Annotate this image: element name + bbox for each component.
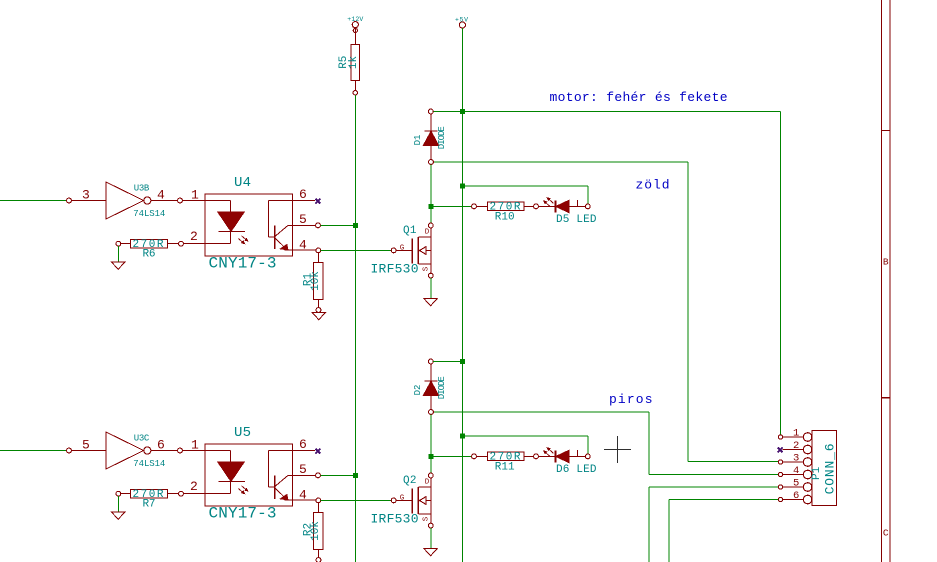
junction +5V led feed — [460, 434, 465, 439]
svg-text:G: G — [400, 245, 405, 253]
resistor R2 — [314, 503, 324, 562]
label Q1 — [403, 225, 417, 237]
pin number 5 — [82, 438, 90, 453]
label U3B — [134, 184, 150, 194]
node input pin 5 — [67, 448, 106, 453]
svg-text:C: C — [883, 528, 889, 539]
transistor Q2 — [391, 473, 433, 528]
svg-text:74LS14: 74LS14 — [133, 459, 165, 469]
svg-text:2: 2 — [190, 479, 198, 494]
pin number 2 — [793, 440, 799, 452]
pin number 4 — [793, 465, 799, 477]
resistor R5 — [351, 45, 360, 95]
value DIODE — [437, 126, 447, 149]
connector P1 — [783, 431, 837, 506]
svg-text:R11: R11 — [495, 462, 515, 474]
svg-text:D5 LED: D5 LED — [556, 214, 597, 226]
svg-text:3: 3 — [82, 188, 90, 203]
junction +12V rail — [353, 473, 358, 478]
svg-text:1: 1 — [191, 438, 199, 453]
pin number 3 — [82, 188, 90, 203]
svg-text:DIODE: DIODE — [437, 376, 447, 399]
junction +5V led feed — [460, 184, 465, 189]
svg-text:S: S — [422, 266, 430, 271]
node inverter output — [178, 198, 183, 203]
value 10k — [310, 521, 322, 541]
value IRF530 — [371, 262, 419, 277]
svg-text:U3C: U3C — [134, 434, 150, 444]
label D2 — [413, 385, 423, 396]
pin number 1 — [182, 188, 205, 203]
svg-text:motor: fehér és fekete: motor: fehér és fekete — [550, 90, 728, 105]
svg-text:1k: 1k — [348, 56, 360, 70]
resistor R10 — [472, 202, 539, 211]
wire pin6 of P1 — [669, 500, 778, 562]
svg-text:+5V: +5V — [455, 16, 468, 23]
pin name D — [425, 229, 430, 237]
label R2 — [303, 523, 315, 536]
wire pin5 of P1 — [649, 487, 778, 562]
label D5 LED — [556, 214, 597, 226]
svg-text:zöld: zöld — [636, 178, 670, 193]
wire pin5 to +12V rail — [320, 474, 355, 476]
svg-text:6: 6 — [793, 490, 799, 502]
svg-text:5: 5 — [299, 462, 307, 477]
wire D2 cathode to +5V rail — [433, 361, 462, 363]
pin 6 — [293, 187, 316, 202]
node P1 pin 1 — [778, 435, 782, 439]
svg-text:P1: P1 — [811, 466, 823, 480]
wire source to ground — [430, 278, 432, 299]
label R5 — [338, 56, 350, 69]
wire +12V rail vertical — [354, 95, 356, 562]
label D1 — [413, 135, 423, 146]
wire source to ground — [430, 528, 432, 549]
svg-text:IRF530: IRF530 — [371, 512, 419, 527]
pin 4 — [293, 238, 321, 253]
pin number 5 — [793, 477, 799, 489]
wire motor net — [433, 112, 780, 435]
svg-text:CNY17-3: CNY17-3 — [209, 505, 277, 523]
frame row letter B — [883, 257, 889, 268]
svg-text:6: 6 — [299, 437, 307, 452]
pin number 3 — [793, 452, 799, 464]
label zöld — [636, 178, 670, 193]
pin number 4 — [151, 188, 178, 203]
value 270R — [490, 451, 521, 463]
ground — [424, 549, 437, 556]
pin 2 — [179, 479, 205, 496]
diode D1 — [423, 109, 438, 164]
wire pin4 to gate — [321, 499, 391, 501]
node P1 pin 5 — [778, 485, 782, 489]
junction +12V rail — [353, 223, 358, 228]
resistor R11 — [472, 452, 539, 461]
value DIODE — [437, 376, 447, 399]
label R10 — [495, 212, 515, 224]
ground — [112, 262, 125, 269]
svg-text:6: 6 — [157, 438, 165, 453]
pin number 1 — [182, 438, 205, 453]
value CNY17-3 — [209, 255, 277, 273]
value 270R — [133, 239, 164, 251]
pin name S — [422, 516, 430, 521]
value 74LS14 — [133, 459, 165, 469]
LED D6 — [538, 448, 590, 463]
ground — [424, 299, 437, 306]
inverter U3B — [106, 182, 151, 219]
junction +5V motor — [460, 109, 465, 114]
svg-text:D: D — [425, 479, 430, 487]
value 270R — [133, 489, 164, 501]
svg-text:U4: U4 — [234, 175, 251, 191]
power +5V — [455, 16, 468, 28]
svg-text:1: 1 — [191, 188, 199, 203]
svg-text:Q2: Q2 — [403, 475, 417, 487]
wire diode to drain — [430, 414, 432, 473]
svg-text:4: 4 — [157, 188, 165, 203]
label Q2 — [403, 475, 417, 487]
frame row letter C — [883, 528, 889, 539]
wire +5V rail vertical — [461, 28, 463, 562]
svg-text:U5: U5 — [234, 425, 251, 441]
value 74LS14 — [133, 209, 165, 219]
svg-text:2: 2 — [190, 229, 198, 244]
svg-text:D2: D2 — [413, 385, 423, 396]
node inverter output — [178, 448, 183, 453]
transistor Q1 — [391, 223, 433, 278]
resistor R1 — [314, 253, 324, 313]
wire led anode feed — [462, 186, 587, 204]
svg-text:CNY17-3: CNY17-3 — [209, 255, 277, 273]
value IRF530 — [371, 512, 419, 527]
wire pin4 to gate — [321, 249, 391, 251]
svg-text:5: 5 — [299, 212, 307, 227]
svg-text:CONN_6: CONN_6 — [823, 443, 838, 494]
value 270R — [490, 201, 521, 213]
label R6 — [143, 249, 156, 261]
diode D2 — [423, 359, 438, 414]
wire input — [0, 450, 67, 452]
wire diode to drain — [430, 164, 432, 223]
svg-text:4: 4 — [299, 488, 307, 503]
pin 4 — [293, 488, 321, 503]
resistor R6 — [116, 239, 179, 248]
wire to ground — [117, 246, 119, 262]
value 1k — [348, 56, 360, 70]
label R7 — [143, 499, 156, 511]
wire zöld to pin3 — [688, 461, 778, 463]
svg-text:4: 4 — [793, 465, 799, 477]
node P1 pin 6 — [778, 497, 782, 501]
label U5 — [234, 425, 251, 441]
pin name S — [422, 266, 430, 271]
svg-text:4: 4 — [299, 238, 307, 253]
pin 2 — [179, 229, 205, 246]
wire zöld net — [434, 162, 689, 462]
power +12V — [347, 16, 363, 45]
svg-text:R7: R7 — [143, 499, 156, 511]
label D6 LED — [556, 464, 597, 476]
resistor R7 — [116, 489, 179, 498]
pin 5 — [293, 212, 321, 228]
junction led branch — [428, 204, 433, 209]
opto-isolator U5 — [205, 444, 293, 506]
svg-text:D6 LED: D6 LED — [556, 464, 597, 476]
svg-text:3: 3 — [793, 452, 799, 464]
ground — [112, 512, 125, 519]
value CONN_6 — [823, 443, 838, 494]
pin number 1 — [793, 427, 799, 439]
svg-text:D1: D1 — [413, 135, 423, 146]
node input pin 3 — [67, 198, 106, 203]
svg-text:10k: 10k — [310, 521, 322, 541]
junction +5V rail lower — [460, 359, 465, 364]
svg-text:Q1: Q1 — [403, 225, 417, 237]
svg-text:DIODE: DIODE — [437, 126, 447, 149]
label R11 — [495, 462, 515, 474]
junction led branch — [428, 454, 433, 459]
wire to ground — [117, 496, 119, 512]
svg-text:+12V: +12V — [347, 16, 363, 23]
svg-text:U3B: U3B — [134, 184, 150, 194]
no-connect pin 6 — [315, 449, 320, 454]
pin number 6 — [793, 490, 799, 502]
inverter U3C — [106, 432, 151, 469]
svg-text:5: 5 — [82, 438, 90, 453]
pin name D — [425, 479, 430, 487]
pin 5 — [293, 462, 321, 478]
crosshair marker — [604, 436, 631, 463]
svg-text:5: 5 — [793, 477, 799, 489]
svg-text:R10: R10 — [495, 212, 515, 224]
svg-text:G: G — [400, 495, 405, 503]
no-connect P1 pin 2 — [778, 447, 783, 452]
pin name G — [400, 245, 405, 253]
svg-text:IRF530: IRF530 — [371, 262, 419, 277]
svg-text:2: 2 — [793, 440, 799, 452]
pin name G — [400, 495, 405, 503]
wire led anode feed — [462, 436, 587, 454]
label P1 — [811, 466, 823, 480]
wire pin5 to +12V rail — [320, 224, 355, 226]
label motor: fehér és fekete — [550, 90, 728, 105]
label U4 — [234, 175, 251, 191]
svg-text:piros: piros — [609, 392, 653, 407]
wire to led resistor — [431, 205, 472, 207]
no-connect pin 6 — [315, 199, 320, 204]
svg-text:1: 1 — [793, 427, 799, 439]
label R1 — [303, 273, 315, 287]
svg-text:B: B — [883, 257, 889, 268]
svg-text:6: 6 — [299, 187, 307, 202]
pin number 6 — [151, 438, 178, 453]
wire input — [0, 200, 67, 202]
label U3C — [134, 434, 150, 444]
node P1 pin 4 — [778, 472, 782, 476]
ground — [312, 312, 325, 319]
svg-text:10k: 10k — [310, 271, 322, 291]
node P1 pin 3 — [778, 460, 782, 464]
wire piros net — [434, 412, 779, 474]
label piros — [609, 392, 653, 407]
value CNY17-3 — [209, 505, 277, 523]
sheet border — [882, 0, 891, 562]
svg-text:S: S — [422, 516, 430, 521]
svg-text:R6: R6 — [143, 249, 156, 261]
svg-text:D: D — [425, 229, 430, 237]
pin 6 — [293, 437, 316, 452]
value 10k — [310, 271, 322, 291]
opto-isolator U4 — [205, 194, 293, 256]
svg-text:74LS14: 74LS14 — [133, 209, 165, 219]
LED D5 — [538, 198, 590, 213]
wire to led resistor — [431, 455, 472, 457]
